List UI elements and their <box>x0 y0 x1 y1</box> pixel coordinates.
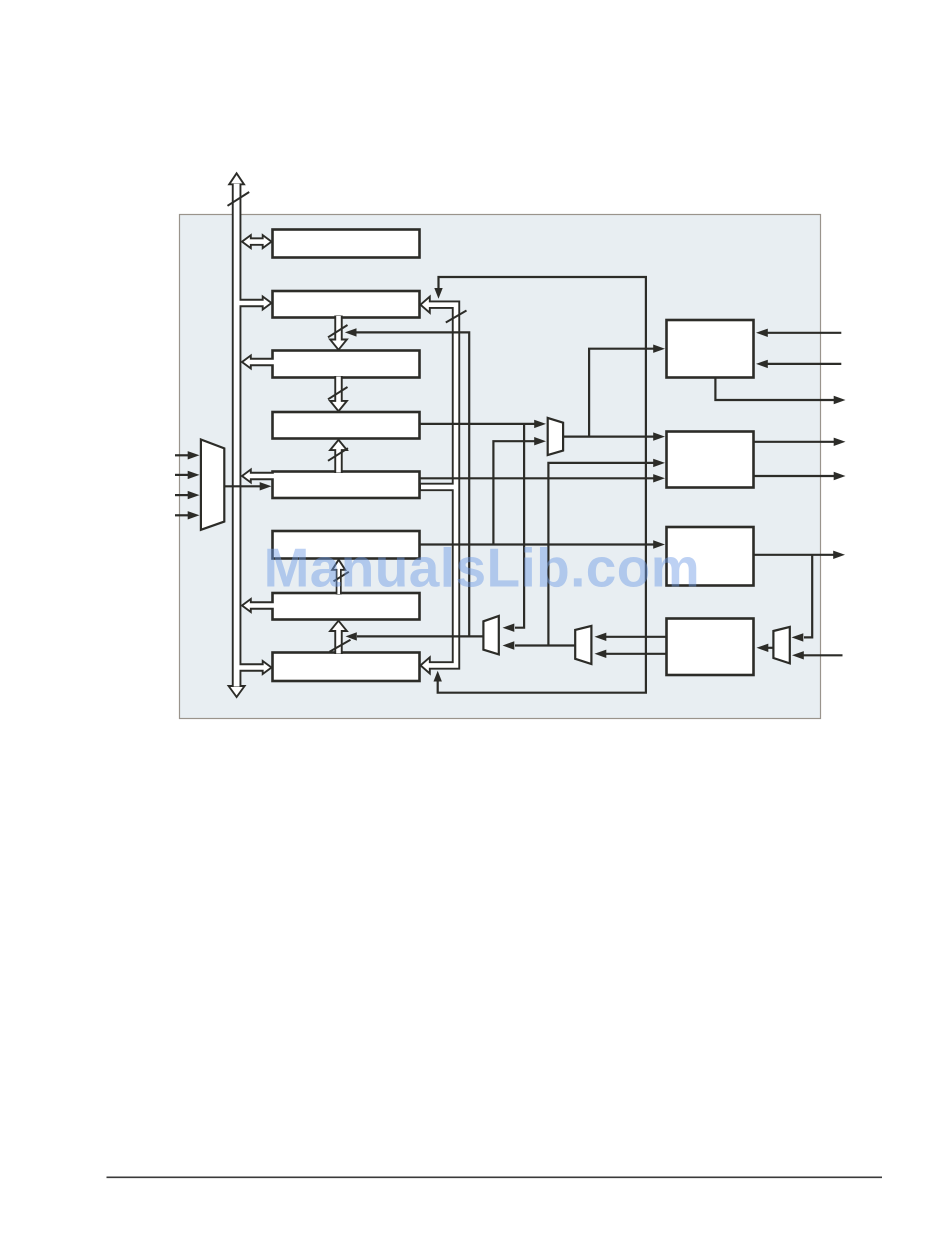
wire R2 output 1 <box>754 438 846 446</box>
slash on B3-B4 transfer <box>328 387 348 399</box>
wire mux T3 output to B7-B8 transfer <box>346 632 484 640</box>
wire clock input 1 to mux T1 <box>175 451 200 459</box>
wire R3 output to right edge and mux T5 <box>754 551 846 642</box>
mux T2 <box>548 418 563 455</box>
open arrow B7 up to B6 (small) <box>332 560 345 595</box>
register box B4 <box>273 412 420 439</box>
open arrow B7 to bus <box>242 599 275 612</box>
clock mux T1 <box>201 440 224 530</box>
svg-text:ManualsLib.com: ManualsLib.com <box>264 536 700 598</box>
wire into B2-B3 transfer <box>345 328 469 636</box>
open arrow B3 to bus <box>242 356 275 369</box>
panel background <box>180 215 821 719</box>
open arrow B5 to bus <box>242 470 275 483</box>
open arrow B5 up to B4 <box>330 440 347 473</box>
footer rule <box>107 1176 883 1178</box>
open arrow B3 down to B4 <box>330 376 347 411</box>
wire mux T2 output to R2 <box>563 432 665 440</box>
mux T3 <box>483 616 498 655</box>
box R1 <box>667 320 754 378</box>
wire B6 output to R3 and mux T2 <box>420 437 666 549</box>
wire clock input 3 to mux T1 <box>175 491 200 499</box>
register box B2 <box>273 291 420 318</box>
register box B5 <box>273 472 420 499</box>
wire external input 2 to R1 <box>756 360 841 368</box>
register box B8 <box>273 653 420 682</box>
slash on B5-B4 transfer <box>328 448 348 461</box>
wire T4 output branch up to R2 <box>548 459 665 646</box>
wire loop from B2 input path to B8 input path <box>434 277 646 693</box>
wire external input 1 to R1 <box>756 329 841 337</box>
register box B6 <box>273 531 420 559</box>
slash on B7-B6 transfer <box>334 572 349 582</box>
wire R1 output to right edge <box>715 378 845 405</box>
wire external input to mux T5 <box>792 651 843 659</box>
wire R4 to mux T4 input 1 <box>595 633 667 641</box>
wire clock input 4 to mux T1 <box>175 511 200 519</box>
wire mux T2 output branch to R1 <box>589 345 665 436</box>
open arrow bus to B1 (bidirectional) <box>242 235 272 248</box>
open arrow bus to B2 <box>237 297 272 310</box>
white data channel with arrows into B2 and B8 <box>420 297 457 674</box>
bus width slash <box>228 192 250 206</box>
register box B3 <box>273 351 420 378</box>
box R2 <box>667 432 754 488</box>
wire R4 to mux T4 input 2 <box>595 650 667 658</box>
wire B4 output to mux T2 and mux T3 <box>420 420 547 632</box>
wire B5 output to R2 <box>420 474 666 482</box>
wire R2 output 2 <box>754 472 846 480</box>
open arrow B8 up to B7 <box>330 621 347 654</box>
register box B7 <box>273 593 420 620</box>
mux T4 <box>575 626 591 664</box>
data bus <box>229 173 245 697</box>
slash on B2-B3 transfer <box>328 325 348 337</box>
open arrow B2 down to B3 <box>330 316 347 350</box>
box R4 <box>667 619 754 676</box>
wire clock input 2 to mux T1 <box>175 471 200 479</box>
wire mux T5 output to R4 <box>757 644 774 652</box>
open arrow bus to B8 <box>237 661 272 674</box>
wire mux T4 output to mux T3 <box>503 641 576 649</box>
slash on data channel <box>446 311 467 323</box>
register box B1 <box>273 230 420 258</box>
wire mux T1 output to B5 <box>224 482 271 490</box>
mux T5 <box>773 627 789 664</box>
box R3 <box>667 527 754 586</box>
slash on B8-B7 transfer <box>330 640 351 652</box>
